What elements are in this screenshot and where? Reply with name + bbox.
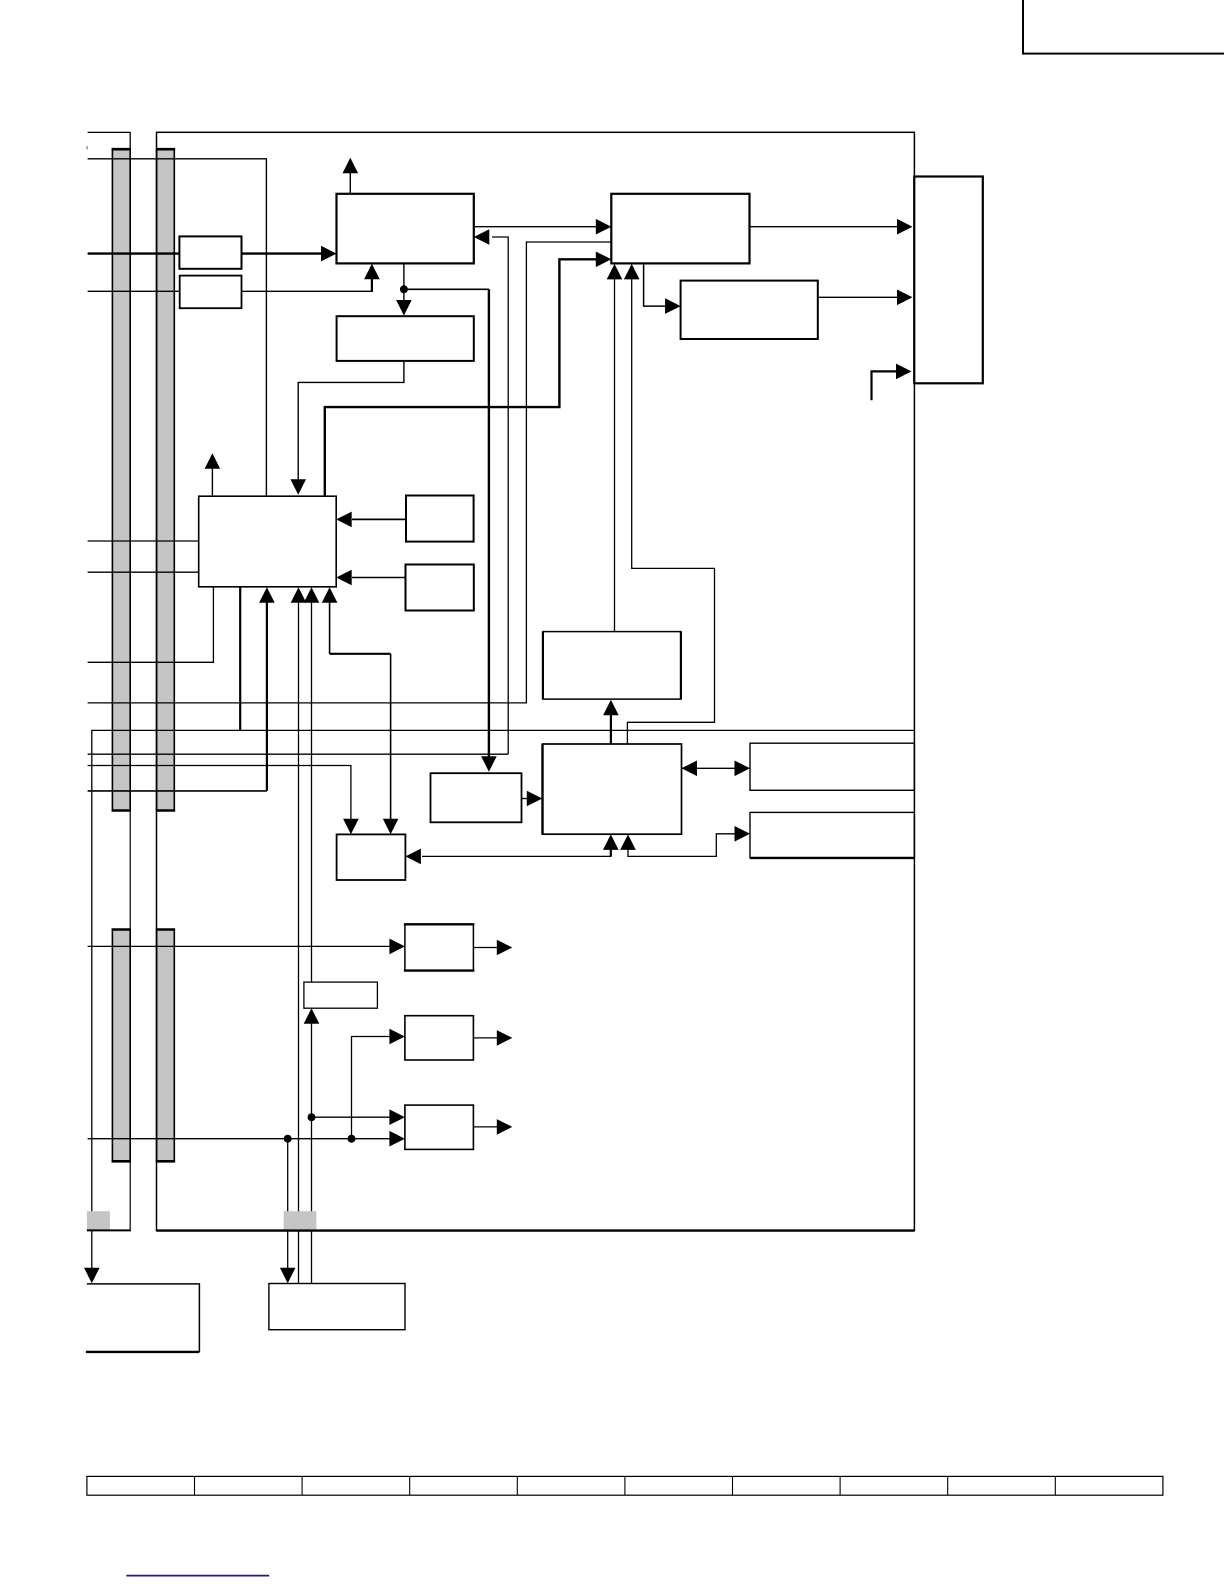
box U6 speaker block <box>87 1284 199 1352</box>
wire U9-R1 bidir line <box>682 767 751 769</box>
arrow up into box5 bottom e <box>304 587 320 603</box>
wire thick y654 <box>330 653 391 655</box>
box U8 <box>431 773 522 822</box>
wire U2-bottom to U5 top <box>614 279 616 632</box>
wire box5 bottom thick drop <box>239 587 241 731</box>
wire U8 out to U9 <box>522 798 530 800</box>
arrow into U2 left upper <box>596 219 612 235</box>
wire SW2 out <box>473 1037 498 1039</box>
wire SW1 out <box>473 947 498 949</box>
wire long line y730 <box>92 730 915 1269</box>
wire W2 to box5 right <box>352 577 406 579</box>
box W1 xtal <box>406 496 474 542</box>
wire stem b5d to U7 <box>298 601 300 1284</box>
box SW1 <box>405 924 474 970</box>
box U2 processor <box>611 194 749 264</box>
arrow into U1 right <box>474 229 490 245</box>
wire thick video-in line <box>88 252 334 254</box>
box U7 panel block <box>269 1284 405 1330</box>
arrow down into U6box <box>84 1268 100 1284</box>
wire y1139 into SW3 lower <box>88 1138 391 1140</box>
arrow bidir left <box>682 761 698 777</box>
arrow out SW2 <box>497 1030 513 1046</box>
bus connector square left <box>87 1211 110 1230</box>
wire y765 to boxT a <box>88 766 351 821</box>
wire U9-top to boxM bottom stem <box>610 715 612 745</box>
junction dot y1139 a <box>284 1135 292 1143</box>
wire y946 into SW1 <box>88 945 391 947</box>
arrow up into U1 bottom <box>364 264 380 280</box>
wire U1 bottom to U4 top <box>403 263 405 300</box>
arrow down into boxT a <box>343 819 359 835</box>
bus connector square right <box>284 1211 317 1230</box>
wire top-left stub <box>88 132 131 149</box>
wire stem b5e to boxN <box>311 601 313 982</box>
arrow up into boxM bottom <box>603 700 619 716</box>
arrow up out of box5 <box>205 453 221 469</box>
arrow up into box5 bottom f <box>322 587 338 603</box>
wire SW3 out <box>473 1126 498 1128</box>
arrow down into box5 top <box>290 479 306 495</box>
wire bus1 right-edge line <box>129 149 131 1230</box>
wire boxN bottom to U7 <box>311 1023 313 1284</box>
wire box5 bottom left drop <box>88 587 214 663</box>
arrow left into boxT right <box>405 849 421 865</box>
box SW2 <box>405 1016 474 1060</box>
bus bar1 <box>112 149 130 810</box>
junction dot SW3a <box>308 1113 316 1121</box>
box SW3 <box>405 1105 474 1149</box>
arrow down into U7 <box>280 1268 296 1284</box>
arrow into U1 left <box>321 246 337 262</box>
box W2 xtal <box>406 565 474 611</box>
box U5 main micom <box>199 496 337 587</box>
wire riser to SW2 <box>352 1037 392 1139</box>
arrow bidir right <box>735 761 751 777</box>
box N small flat <box>304 982 378 1008</box>
arrow down into U4 top <box>396 300 412 316</box>
arrow into tall box b <box>897 290 913 306</box>
wire stem b5f <box>329 601 331 654</box>
wire sync line into U1 bottom <box>88 279 372 291</box>
box U4 <box>337 316 474 361</box>
box R2 wide <box>750 812 914 858</box>
wire tuner line1 into box5 <box>88 540 199 542</box>
wire U3 to tall box <box>818 296 900 298</box>
arrow into U2 left lower <box>596 252 612 268</box>
arrow into SW2 <box>389 1029 405 1045</box>
wire drop to boxT b <box>390 654 392 820</box>
arrow up into box5 bottom d <box>291 587 307 603</box>
wire boxT arrow line y856 <box>422 850 611 857</box>
junction dot <box>400 285 408 293</box>
wire thick drop to U8 <box>488 289 490 757</box>
junction dot y1139 b <box>348 1135 356 1143</box>
wire U4 bottom to box5 top <box>298 361 404 480</box>
wire tuner line2 into box5 <box>88 571 199 573</box>
bottom-left line stub <box>87 1229 131 1231</box>
arrow into tall box c <box>896 364 912 380</box>
arrow down into U8 top <box>481 756 497 772</box>
arrow out SW1 <box>497 940 513 956</box>
box U3 <box>681 281 818 339</box>
wire box5 top arrow out stem <box>211 468 213 496</box>
wire dot-branch into SW3 upper <box>312 1116 392 1118</box>
arrow into SW1 <box>389 939 405 955</box>
box S2 input module <box>180 276 242 309</box>
wire long line y703 to U2 <box>88 242 612 703</box>
outer frame bottom thick <box>157 1229 915 1231</box>
box S1 input module <box>179 236 241 268</box>
arrow into SW3 upper <box>389 1109 405 1125</box>
wire U1 to U2 line <box>474 226 598 228</box>
wire drop to U7 arrow <box>287 1139 289 1269</box>
arrow up into U9 bottom a <box>603 834 619 850</box>
op-amp U1 video decoder <box>337 194 474 264</box>
wire U2 bottom to U3 <box>644 263 667 306</box>
arrow into U3 left <box>665 298 681 314</box>
wire U2-bottom zigzag to U6 top <box>627 279 714 745</box>
arrow into box5 right b <box>336 570 352 586</box>
tiny speck <box>86 146 88 149</box>
box top-right sheet ref <box>1023 0 1224 54</box>
arrow out SW3 <box>497 1119 513 1135</box>
wire stem of U1 bottom arrow <box>371 279 373 292</box>
wire CPU-bus line to IC2001 top <box>88 159 267 496</box>
footer revision table <box>87 1476 1163 1495</box>
bus bar2 <box>157 149 175 810</box>
arrow into U9 left <box>527 791 543 807</box>
arrow up into U2 bottom a <box>607 264 623 280</box>
outer board frame <box>157 132 915 1230</box>
wire thick path box5-top to U2 <box>325 259 597 496</box>
arrow up into U9 bottom b <box>620 834 636 850</box>
arrow right into boxR2 <box>735 826 751 842</box>
arrow up into U2 bottom b <box>624 264 640 280</box>
wire U9-b to boxR2 <box>628 834 736 857</box>
box U9 controller <box>543 744 682 834</box>
arrow into SW3 lower <box>389 1131 405 1147</box>
box T jack <box>337 834 406 880</box>
bus bar4 <box>157 930 175 1162</box>
wire hook into tall box <box>872 371 900 400</box>
wire dot to thick drop <box>404 288 489 290</box>
box R1 wide <box>750 743 914 790</box>
blue footer rule <box>126 1575 269 1577</box>
wire y791 to left edge <box>88 790 267 792</box>
wire U2 to tall box <box>750 226 901 228</box>
box tall V output <box>914 177 983 384</box>
arrow into tall box a <box>897 219 913 235</box>
arrow into box5 right a <box>336 512 352 528</box>
bus bar3 <box>112 930 130 1162</box>
box M memory <box>543 632 681 700</box>
wire stem up into U9 bottom a <box>610 850 612 857</box>
arrow up into boxN bottom <box>304 1008 320 1024</box>
wire feedback into U1 right <box>492 237 508 754</box>
arrow up out of U1 top <box>343 158 359 174</box>
arrow up into box5 bottom c <box>259 587 275 603</box>
wire stem b5c <box>266 601 268 791</box>
arrow down into boxT b <box>383 819 399 835</box>
wire U1 top arrow stem <box>349 173 351 194</box>
wire W1 to box5 right <box>352 518 406 520</box>
wire long return line y754 <box>88 753 509 755</box>
